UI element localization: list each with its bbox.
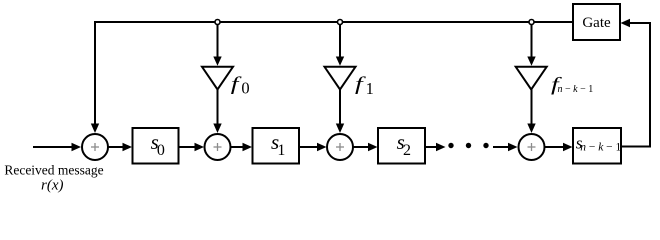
svg-text:Received message: Received message <box>4 163 103 178</box>
svg-text:1: 1 <box>277 142 285 159</box>
svg-text:n − k − 1: n − k − 1 <box>580 142 621 154</box>
svg-text:r(x): r(x) <box>41 177 64 193</box>
svg-text:n − k − 1: n − k − 1 <box>558 84 594 95</box>
svg-text:0: 0 <box>241 79 249 98</box>
svg-text:0: 0 <box>157 142 165 159</box>
svg-text:Gate: Gate <box>582 15 611 31</box>
svg-text:1: 1 <box>366 79 374 98</box>
svg-text:2: 2 <box>403 142 411 159</box>
